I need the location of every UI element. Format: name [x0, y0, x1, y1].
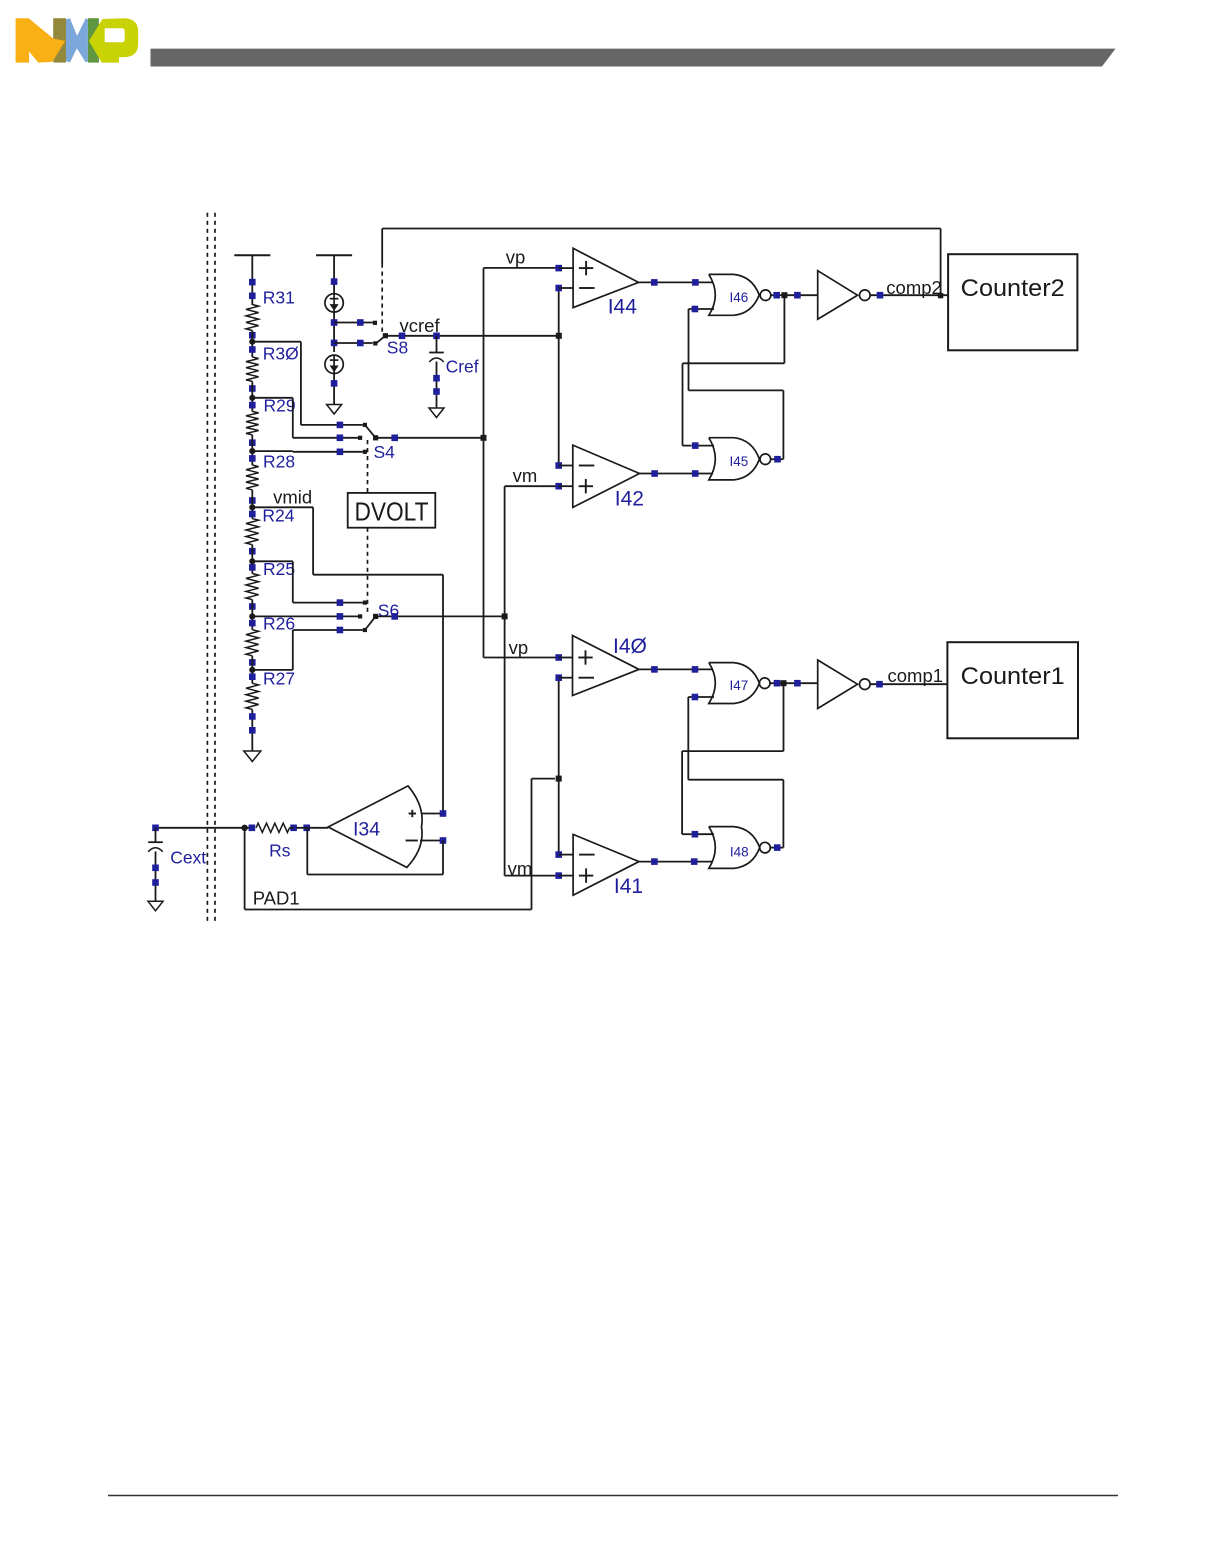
nor gate I46 [709, 274, 759, 315]
wire S4 control dashed [367, 440, 369, 493]
node R24-R25 junction [249, 545, 255, 574]
pin [433, 388, 440, 395]
svg-text:I4Ø: I4Ø [613, 635, 647, 658]
wire [290, 827, 329, 829]
wire tap R24-R25 to S6 [252, 561, 362, 602]
wire I47.out to I48.in1 [682, 683, 783, 834]
pin [337, 599, 344, 606]
contact [363, 423, 367, 427]
svg-text:R28: R28 [263, 451, 295, 471]
ground (Cref) [429, 408, 444, 418]
resistor R30 [246, 343, 299, 381]
pin [773, 292, 780, 299]
svg-text:vm: vm [513, 465, 538, 486]
pin [555, 674, 562, 681]
wire comp2 [870, 294, 948, 296]
wire to inverter [784, 682, 818, 684]
resistor Rs [256, 823, 291, 860]
pin [249, 727, 256, 734]
pin [331, 319, 338, 326]
pin [249, 659, 256, 666]
label vmid [273, 486, 312, 507]
wire vcref [385, 335, 558, 337]
pin [249, 279, 256, 286]
pin [774, 456, 781, 463]
wire [333, 373, 335, 405]
capacitor Cext [148, 828, 206, 902]
op-amp I42 [573, 445, 644, 510]
pin [249, 603, 256, 610]
svg-text:I34: I34 [353, 819, 380, 841]
label comp2 [886, 277, 942, 298]
pin [651, 470, 658, 477]
node PAD1 junction [241, 825, 247, 831]
pin [774, 844, 781, 851]
pin [794, 292, 801, 299]
pin [692, 666, 699, 673]
node I47 output junction [781, 680, 787, 686]
bubble [759, 678, 770, 689]
svg-text:I44: I44 [608, 296, 638, 319]
svg-text:Counter2: Counter2 [961, 275, 1065, 302]
NXP logo N (orange) [16, 18, 66, 62]
wire vm net [504, 486, 506, 875]
label PAD1 [253, 888, 300, 909]
op-amp I41 [573, 834, 643, 898]
pin [555, 483, 562, 490]
svg-text:S4: S4 [374, 442, 396, 462]
NXP logo P (green) [88, 18, 138, 62]
pin [249, 402, 256, 409]
wire [559, 466, 573, 487]
pin [774, 680, 781, 687]
pin [249, 620, 256, 627]
wire vp net [483, 268, 485, 658]
wire I34 feedback [307, 828, 443, 875]
contact [373, 321, 377, 325]
pin [331, 278, 338, 285]
switch S6 lever [365, 614, 378, 630]
wire [770, 847, 783, 849]
pin [337, 627, 344, 634]
wire tap R31-R30 to S4 [252, 342, 362, 425]
label vm (bottom) [508, 858, 533, 879]
pin [692, 442, 699, 449]
svg-text:I47: I47 [730, 678, 749, 693]
wire minus bus bottom [558, 678, 560, 855]
box Counter1 [947, 642, 1078, 738]
svg-text:I48: I48 [730, 845, 749, 860]
pin [249, 497, 256, 504]
wire vm to I42 [505, 485, 556, 487]
pin [249, 564, 256, 571]
wire vmid [252, 507, 443, 813]
svg-text:S8: S8 [387, 338, 408, 358]
wire S8 throw-b [334, 340, 373, 347]
box DVOLT [348, 493, 436, 528]
wire S6 control dashed [367, 528, 369, 613]
node PAD1-minus junction [556, 776, 562, 782]
inverter (comp2) [818, 271, 858, 320]
pin [877, 292, 884, 299]
label S6 [378, 601, 399, 621]
contact [363, 450, 367, 454]
svg-text:I41: I41 [614, 875, 643, 898]
NXP logo X (blue) [66, 18, 88, 62]
pin [337, 435, 344, 442]
pin [331, 340, 338, 347]
pin [651, 858, 658, 865]
chip boundary dashed line 2 [214, 213, 216, 922]
bubble [760, 454, 771, 465]
label S4 [374, 442, 396, 462]
pin [440, 810, 447, 817]
footer rule [108, 1495, 1118, 1497]
label vp (top) [506, 247, 526, 268]
wire I46.out to I45.in1 [683, 295, 785, 445]
resistor R27 [246, 669, 295, 710]
wire I40 output [639, 668, 713, 670]
wire [559, 658, 573, 678]
pin [249, 293, 256, 300]
svg-text:vm: vm [508, 858, 533, 879]
pin [249, 346, 256, 353]
pin [337, 613, 344, 620]
pin [555, 285, 562, 292]
wire I42 output [640, 473, 714, 475]
wire [333, 311, 335, 352]
resistor R25 [246, 559, 295, 600]
vdd rail (current sources) [316, 255, 352, 294]
pin [691, 858, 698, 865]
resistor R24 [246, 506, 295, 545]
pin [249, 385, 256, 392]
pin [794, 680, 801, 687]
wire I48.out to I47.in2 [688, 697, 783, 848]
capacitor Cref [429, 336, 479, 408]
pin [249, 511, 256, 518]
contact [363, 601, 367, 605]
box Counter2 [948, 254, 1077, 350]
pin [440, 837, 447, 844]
wire I34 minus input [420, 840, 443, 842]
node vcref junction [556, 333, 562, 339]
pin [876, 681, 883, 688]
header gray bar [151, 49, 1116, 67]
wire I45.out to I46.in2 [689, 309, 784, 459]
wire tap R29-R28 to S4 [252, 450, 362, 453]
current source 2 [325, 355, 343, 373]
label S8 [387, 338, 408, 358]
wire I45 input stubs [695, 445, 714, 447]
wire vm to I41 [505, 875, 556, 877]
pin [249, 455, 256, 462]
contact [373, 341, 377, 345]
wire vp to I40 [484, 657, 557, 659]
pin [555, 265, 562, 272]
ground (Cext) [148, 901, 163, 911]
wire S8 throw-a [334, 319, 373, 326]
node R31-R30 junction [249, 331, 255, 358]
wire [770, 682, 784, 684]
svg-text:comp1: comp1 [888, 665, 944, 686]
svg-text:I46: I46 [730, 290, 749, 305]
wire I41 output [639, 861, 713, 863]
resistor R26 [246, 614, 295, 656]
switch S8 lever [376, 333, 388, 344]
node R25-R26 junction [249, 600, 255, 630]
svg-text:vmid: vmid [273, 486, 312, 507]
svg-text:Counter1: Counter1 [961, 663, 1065, 690]
op-amp I40 [573, 635, 647, 696]
svg-text:I42: I42 [615, 487, 644, 510]
pin [152, 879, 159, 886]
node vm junction [502, 613, 508, 619]
svg-text:vcref: vcref [400, 315, 441, 336]
svg-text:R27: R27 [263, 669, 295, 689]
nor gate I48 [709, 827, 760, 869]
svg-text:vp: vp [509, 637, 529, 658]
pin [303, 825, 310, 832]
contact [358, 436, 362, 440]
svg-text:R24: R24 [262, 506, 294, 526]
pin [249, 673, 256, 680]
pin [692, 831, 699, 838]
svg-text:R31: R31 [263, 288, 295, 308]
wire [251, 709, 253, 751]
wire [559, 268, 573, 288]
node I46 output junction [781, 292, 787, 298]
pin [399, 333, 406, 340]
pin [555, 851, 562, 858]
bubble [860, 290, 871, 301]
pin [249, 548, 256, 555]
node R29-R28 junction [249, 435, 255, 465]
resistor R28 [246, 451, 295, 490]
pin [692, 694, 699, 701]
label vp (bottom) [509, 637, 529, 658]
current source 1 [325, 294, 343, 312]
nor gate I47 [709, 663, 760, 704]
svg-text:Cext: Cext [170, 848, 206, 868]
contact [363, 628, 367, 632]
svg-text:vp: vp [506, 247, 526, 268]
svg-text:Rs: Rs [269, 840, 291, 860]
ground (ladder) [244, 751, 261, 762]
bubble [760, 842, 771, 853]
pin [249, 439, 256, 446]
wire vp to I44 [484, 267, 556, 269]
wire S8 control dashed [381, 264, 383, 333]
pin [692, 470, 699, 477]
node comp2 junction [938, 293, 943, 298]
svg-text:I45: I45 [730, 454, 749, 469]
pin [152, 825, 159, 832]
op-amp I34 [328, 786, 422, 868]
pin [337, 449, 344, 456]
pin [433, 375, 440, 382]
wire tap R26-R27 to S6 [252, 630, 362, 670]
ground (current sources) [327, 405, 342, 415]
node vp junction [481, 435, 487, 441]
pin [249, 713, 256, 720]
vdd rail (ladder) [234, 255, 270, 305]
node vmid junction [249, 490, 255, 519]
pin [249, 332, 256, 339]
wire [771, 294, 785, 296]
switch S4 lever [365, 425, 378, 441]
svg-text:PAD1: PAD1 [253, 888, 300, 909]
pin [651, 666, 658, 673]
inverter (comp1) [818, 660, 858, 709]
wire I44 output [639, 281, 713, 283]
node R26-R27 junction [249, 656, 255, 684]
pin [651, 279, 658, 286]
wire S4 common to vp [376, 435, 484, 442]
wire I48 input stubs [695, 833, 714, 835]
wire PAD1 net [245, 779, 555, 910]
wire [559, 855, 573, 876]
node R30-R29 junction [249, 381, 255, 411]
resistor R31 [246, 288, 295, 331]
pin [555, 872, 562, 879]
wire I47 input2 stub [695, 696, 714, 698]
pin [331, 380, 338, 387]
wire I46 input2 stub [695, 308, 714, 310]
pin [249, 825, 256, 832]
pin [555, 462, 562, 469]
label vcref [400, 315, 441, 336]
pin [555, 654, 562, 661]
bubble [860, 679, 871, 690]
pin [152, 865, 159, 872]
label comp1 [888, 665, 944, 686]
pin [692, 279, 699, 286]
bubble [760, 290, 771, 301]
label vm (top) [513, 465, 538, 486]
pin [290, 825, 297, 832]
pin [433, 333, 440, 340]
chip boundary dashed line 1 [206, 213, 208, 922]
svg-text:comp2: comp2 [886, 277, 942, 298]
wire comp2 feedback [382, 229, 940, 296]
wire tap R30-R29 to S4 [252, 398, 358, 438]
svg-text:Cref: Cref [446, 356, 479, 376]
wire [771, 458, 784, 460]
svg-text:R3Ø: R3Ø [263, 343, 299, 363]
op-amp I44 [573, 248, 639, 318]
wire S6 common to vm [376, 613, 505, 620]
resistor R29 [246, 395, 296, 435]
wire I34 plus input [421, 813, 443, 815]
wire minus bus top [558, 288, 560, 466]
svg-text:DVOLT: DVOLT [355, 497, 429, 527]
pin [337, 422, 344, 429]
wire [245, 827, 252, 829]
contact [358, 614, 362, 618]
wire comp1 [870, 683, 947, 685]
wire to inverter [784, 294, 817, 296]
nor gate I45 [709, 438, 760, 480]
wire PAD1 pad node [156, 827, 245, 829]
wire tap R25-R26 to S6 [252, 615, 358, 617]
pin [692, 306, 699, 313]
